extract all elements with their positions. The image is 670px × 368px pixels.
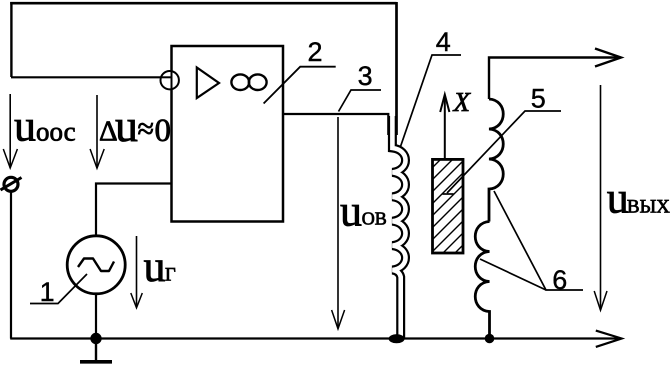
op-amp inverting input circle	[161, 71, 179, 89]
arrowhead: bottom rail	[596, 331, 622, 347]
svg-text:ВЫХ: ВЫХ	[627, 197, 670, 218]
common bottom rail	[10, 337, 618, 339]
transformer primary winding 4 (outlined wavy wire)	[392, 116, 405, 338]
wire: op-amp lower input to generator	[96, 184, 171, 237]
generator 1 circle	[67, 236, 125, 294]
svg-text:5: 5	[531, 84, 546, 114]
label 5 leader line	[447, 111, 561, 193]
svg-text:Г: Г	[165, 265, 176, 285]
wire: secondary top to output arrow	[489, 58, 618, 100]
svg-text:ОВ: ОВ	[362, 208, 387, 228]
wire: feedback left vertical	[10, 2, 12, 77]
op-amp U1 block 2 body	[172, 46, 284, 222]
label 2 leader line	[264, 67, 336, 104]
svg-text:4: 4	[436, 27, 451, 57]
label 3 leader line	[339, 90, 382, 112]
svg-text:u: u	[607, 174, 629, 223]
infinity gain symbol	[231, 74, 249, 90]
svg-text:u: u	[144, 242, 166, 291]
wire: generator bottom	[95, 294, 97, 339]
svg-text:X: X	[453, 87, 472, 117]
svg-text:u: u	[14, 102, 36, 151]
wire: op-amp output	[283, 114, 388, 135]
svg-text:u: u	[340, 186, 362, 235]
svg-text:≈: ≈	[138, 113, 154, 146]
label 1 leader line	[30, 274, 87, 304]
arrowhead: top output	[595, 49, 621, 67]
svg-text:2: 2	[308, 37, 323, 67]
secondary winding upper (6)	[489, 99, 503, 222]
generator sine symbol	[78, 259, 114, 272]
junction dot: secondary to common rail	[485, 334, 495, 344]
X displacement arrow	[444, 96, 446, 160]
svg-text:1: 1	[40, 277, 55, 307]
label 6 leader lines	[494, 191, 583, 290]
terminal symbol (slashed circle)	[4, 177, 18, 191]
voltage arrow u_vyh	[600, 85, 602, 310]
wire: left vertical to bottom rail	[10, 192, 12, 339]
secondary winding lower (6)	[475, 222, 489, 339]
voltage arrow u_ov	[337, 117, 339, 328]
wire: feedback right vertical	[395, 2, 398, 135]
junction dot: generator to rail	[90, 333, 101, 344]
voltage arrow u_ooc	[9, 94, 11, 168]
ground symbol	[95, 339, 97, 361]
svg-text:6: 6	[552, 265, 567, 295]
wire: to inverting input	[11, 76, 161, 78]
label 4 leader line	[400, 55, 461, 148]
core plunger 5: hatched rect	[422, 116, 472, 322]
svg-text:оос: оос	[36, 117, 76, 147]
voltage arrow delta-u	[96, 95, 98, 168]
wire stub through input circle	[161, 76, 172, 78]
amplifier triangle symbol	[197, 68, 219, 99]
wire: feedback top horizontal	[10, 2, 396, 5]
voltage arrow u_g	[136, 236, 138, 307]
junction dot: primary to common rail	[389, 334, 405, 343]
svg-text:u: u	[115, 100, 138, 151]
svg-text:3: 3	[358, 61, 373, 91]
svg-text:0: 0	[155, 113, 172, 149]
